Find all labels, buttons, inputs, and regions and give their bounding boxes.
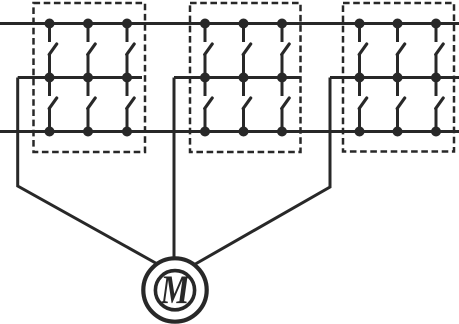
switch: box2 col1 top — [205, 24, 213, 78]
junction dots box3 bottom row — [355, 127, 442, 137]
motor M inner circle — [155, 271, 194, 310]
switch: box1 col3 bottom — [127, 78, 135, 132]
switch: box3 col3 bottom — [436, 78, 444, 132]
switch module box 1 (dashed enclosure) — [34, 3, 146, 152]
junction dots box1 bottom row — [45, 127, 133, 137]
switch module box 3 (dashed enclosure) — [343, 3, 454, 152]
junction dots box2 bottom row — [200, 127, 287, 137]
switch: box1 col1 bottom — [49, 78, 57, 132]
wire: top AC input bus — [0, 22, 459, 25]
switch: box1 col1 top — [49, 24, 57, 78]
switch: box3 col3 top — [436, 24, 444, 78]
wire: box1 middle output rail — [18, 76, 142, 79]
junction dots box2 middle row — [200, 73, 287, 83]
wire: box1 output drop to motor — [18, 78, 157, 264]
switch: box1 col2 top — [88, 24, 96, 78]
switch module box 2 (dashed enclosure) — [190, 3, 301, 152]
wire: box3 output drop to motor — [195, 78, 331, 265]
motor label M — [160, 276, 190, 303]
switch: box2 col2 top — [243, 24, 251, 78]
junction dots box3 middle row — [355, 73, 442, 83]
switch: box2 col2 bottom — [243, 78, 251, 132]
junction dots box1 top row — [45, 19, 133, 29]
wire: bottom AC input bus — [0, 130, 459, 133]
wire: box2 middle output rail — [174, 76, 301, 79]
junction dots box1 middle row — [45, 73, 133, 83]
switch: box3 col2 bottom — [397, 78, 405, 132]
switch: box2 col3 top — [282, 24, 290, 78]
switch: box3 col2 top — [397, 24, 405, 78]
switch: box3 col1 bottom — [359, 78, 367, 132]
motor M outer circle — [143, 258, 206, 321]
switch: box2 col1 bottom — [205, 78, 213, 132]
switch: box3 col1 top — [359, 24, 367, 78]
switch: box1 col3 top — [127, 24, 135, 78]
wire: box3 middle output rail — [330, 76, 459, 79]
switch: box1 col2 bottom — [88, 78, 96, 132]
switch: box2 col3 bottom — [282, 78, 290, 132]
wire: box2 output drop to motor — [173, 78, 176, 259]
junction dots box2 top row — [200, 19, 287, 29]
junction dots box3 top row — [355, 19, 442, 29]
